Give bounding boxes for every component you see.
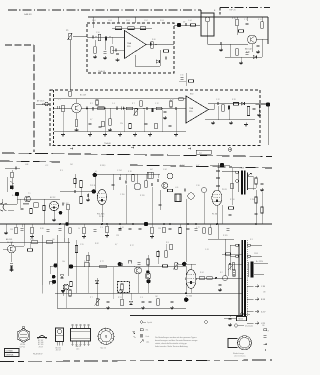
- svg-text:C 55: C 55: [80, 244, 84, 246]
- svg-text:R 70: R 70: [232, 18, 236, 20]
- svg-text:4,7: 4,7: [90, 119, 92, 121]
- svg-text:C 350: C 350: [250, 199, 255, 201]
- svg-text:AD 161: AD 161: [6, 238, 12, 241]
- svg-text:10k: 10k: [62, 261, 65, 263]
- svg-text:TDA-08: TDA-08: [98, 70, 106, 73]
- svg-text:Drucktaste: Drucktaste: [245, 325, 253, 328]
- svg-text:R 74: R 74: [258, 19, 262, 21]
- svg-text:C 9: C 9: [100, 227, 103, 229]
- svg-text:R 64: R 64: [200, 272, 204, 274]
- svg-text:B 88: B 88: [261, 299, 265, 301]
- svg-text:1/8: 1/8: [263, 292, 265, 294]
- svg-text:stattet, damit die Ersatzteile: stattet, damit die Ersatzteile richtig g…: [155, 342, 187, 345]
- svg-text:E30: E30: [190, 94, 193, 96]
- svg-text:10 F 22: 10 F 22: [20, 347, 26, 349]
- svg-text:Kond.: Kond.: [146, 336, 151, 338]
- svg-text:C 58: C 58: [140, 23, 144, 25]
- svg-text:BC 109: BC 109: [38, 344, 43, 346]
- svg-text:R 28: R 28: [232, 99, 236, 101]
- svg-text:R 17: R 17: [130, 245, 134, 247]
- svg-text:C 96: C 96: [196, 185, 200, 187]
- svg-text:6,3 V: 6,3 V: [261, 311, 266, 313]
- svg-text:TBA: TBA: [189, 107, 194, 110]
- svg-text:C 66: C 66: [180, 75, 183, 77]
- svg-text:C 3: C 3: [140, 297, 143, 299]
- svg-text:R 16: R 16: [128, 171, 132, 173]
- svg-text:R 52: R 52: [110, 23, 114, 25]
- svg-text:C 64: C 64: [188, 20, 192, 22]
- svg-text:PL 30: PL 30: [99, 216, 104, 218]
- svg-text:C7: C7: [183, 22, 185, 24]
- svg-text:C107: C107: [144, 20, 148, 22]
- svg-text:Symbol: Symbol: [147, 322, 153, 324]
- svg-text:R 8: R 8: [166, 242, 169, 244]
- svg-text:C103: C103: [108, 20, 112, 22]
- svg-text:R 205: R 205: [223, 235, 228, 237]
- svg-text:oben: oben: [76, 348, 80, 350]
- svg-text:C 72: C 72: [244, 19, 248, 21]
- svg-text:BD 142: BD 142: [245, 49, 253, 51]
- svg-text:Die Bestellungen wurden mit de: Die Bestellungen wurden mit den genauen …: [155, 336, 197, 339]
- svg-text:C 110: C 110: [120, 194, 124, 196]
- svg-text:BC 107: BC 107: [38, 340, 43, 342]
- svg-text:PL 81: PL 81: [222, 189, 227, 191]
- svg-text:220: 220: [158, 228, 161, 230]
- svg-text:C 77: C 77: [196, 227, 200, 229]
- svg-text:R 88: R 88: [40, 228, 44, 230]
- svg-text:Skalen-Lampe: Skalen-Lampe: [233, 353, 244, 355]
- svg-text:T 1: T 1: [28, 193, 30, 195]
- svg-text:C 102: C 102: [64, 203, 69, 205]
- svg-text:FILA 908 IV: FILA 908 IV: [33, 353, 43, 356]
- svg-text:AF 17cm: AF 17cm: [37, 100, 45, 103]
- svg-text:C 214: C 214: [117, 170, 122, 172]
- svg-text:C 31: C 31: [128, 261, 132, 263]
- svg-text:C 12: C 12: [155, 103, 159, 105]
- svg-text:B+ 215V: B+ 215V: [256, 261, 264, 263]
- svg-text:L 12: L 12: [45, 165, 48, 167]
- svg-text:C 22: C 22: [216, 99, 220, 101]
- svg-text:4k7: 4k7: [150, 169, 153, 171]
- svg-text:R 60: R 60: [152, 39, 156, 41]
- svg-text:R 90: R 90: [30, 239, 34, 241]
- svg-text:R 7: R 7: [132, 103, 135, 105]
- svg-text:SAB 89: SAB 89: [24, 13, 32, 16]
- svg-text:TBF 20: TBF 20: [229, 10, 236, 12]
- svg-text:bezeichnungen und den Geraete-: bezeichnungen und den Geraete-Nummern au…: [155, 339, 198, 342]
- svg-text:R 19: R 19: [170, 99, 174, 101]
- svg-text:B 4: B 4: [12, 195, 15, 197]
- svg-text:P 7: P 7: [90, 297, 93, 299]
- svg-text:1k: 1k: [78, 228, 80, 230]
- svg-text:R 77: R 77: [100, 261, 104, 263]
- svg-text:PL 36: PL 36: [212, 214, 217, 216]
- svg-text:GENERAL: GENERAL: [6, 354, 14, 357]
- svg-text:UHF: UHF: [25, 164, 28, 166]
- svg-text:N 1: N 1: [250, 239, 253, 241]
- svg-text:1/8: 1/8: [262, 325, 264, 327]
- svg-text:0,47: 0,47: [196, 165, 199, 167]
- svg-text:C 4: C 4: [112, 103, 115, 105]
- svg-text:C 50: C 50: [96, 32, 100, 34]
- svg-text:R 54: R 54: [126, 23, 130, 25]
- svg-text:C 41: C 41: [205, 249, 209, 251]
- svg-text:0,1: 0,1: [95, 171, 97, 173]
- svg-text:R 51: R 51: [118, 297, 122, 299]
- svg-text:1k5: 1k5: [52, 239, 55, 241]
- svg-text:P 4: P 4: [84, 261, 87, 263]
- svg-text:R 120: R 120: [140, 195, 145, 197]
- svg-text:R105: R105: [126, 20, 130, 22]
- svg-text:liefert werden. Siehe Service-: liefert werden. Siehe Service-Anleitung.: [155, 345, 189, 348]
- svg-text:C 86: C 86: [261, 286, 265, 288]
- svg-text:PD 500: PD 500: [186, 296, 192, 298]
- svg-text:R109: R109: [160, 20, 164, 22]
- svg-text:TBA: TBA: [127, 42, 132, 45]
- svg-text:TDA-08: TDA-08: [104, 142, 111, 145]
- svg-text:R 62: R 62: [95, 243, 99, 245]
- svg-text:2k2: 2k2: [70, 164, 73, 166]
- svg-text:1 p: 1 p: [199, 152, 202, 154]
- svg-text:S 2: S 2: [220, 272, 223, 274]
- svg-text:BC 149: BC 149: [80, 95, 86, 97]
- svg-text:EC 92: EC 92: [50, 197, 55, 199]
- svg-text:Tr 408: Tr 408: [239, 167, 244, 169]
- svg-text:R 3: R 3: [60, 170, 63, 172]
- svg-text:R 310: R 310: [230, 199, 235, 201]
- svg-text:Nov. 10: Nov. 10: [101, 347, 106, 349]
- svg-text:R 2: R 2: [90, 103, 93, 105]
- svg-text:C 1: C 1: [58, 99, 61, 101]
- svg-text:2N 29: 2N 29: [39, 346, 43, 348]
- svg-text:IF 38,9: IF 38,9: [100, 165, 105, 167]
- svg-text:C 84: C 84: [163, 169, 167, 171]
- svg-text:4,7: 4,7: [115, 244, 117, 246]
- svg-text:HY 90: HY 90: [20, 344, 25, 346]
- svg-text:BC 108: BC 108: [38, 342, 43, 344]
- svg-text:L 40: L 40: [175, 187, 178, 189]
- svg-text:CONRAD: CONRAD: [6, 350, 14, 353]
- svg-text:PCF 80: PCF 80: [90, 185, 96, 187]
- svg-text:BD 135: BD 135: [56, 347, 61, 349]
- svg-text:SA 25: SA 25: [238, 318, 243, 321]
- svg-text:R 214: R 214: [180, 165, 185, 167]
- svg-text:AD 162: AD 162: [7, 241, 13, 244]
- svg-text:R101: R101: [92, 20, 96, 22]
- svg-text:22k: 22k: [120, 123, 123, 125]
- svg-text:abgl.: abgl.: [146, 342, 150, 344]
